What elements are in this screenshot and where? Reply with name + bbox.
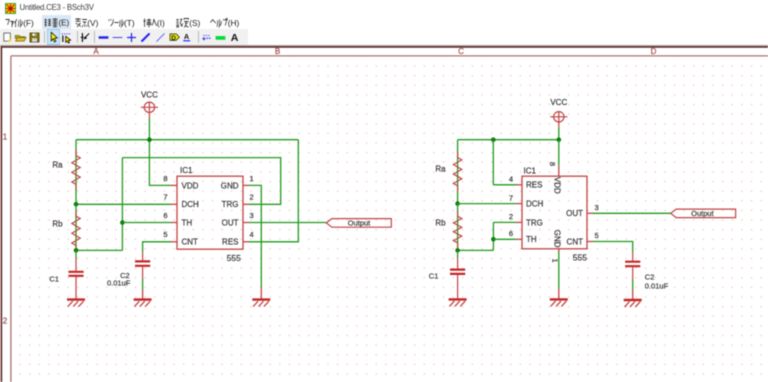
svg-text:7: 7: [509, 193, 513, 202]
svg-text:3: 3: [250, 211, 254, 220]
svg-text:555: 555: [227, 253, 241, 263]
svg-text:(E): (E): [58, 18, 69, 27]
svg-text:TRG: TRG: [526, 218, 543, 227]
svg-text:VDD: VDD: [553, 177, 562, 194]
svg-text:1: 1: [551, 259, 560, 263]
svg-text:(T): (T): [124, 17, 135, 27]
svg-text:(I): (I): [157, 17, 165, 27]
svg-text:Output: Output: [691, 209, 714, 218]
svg-text:DCH: DCH: [182, 200, 200, 209]
svg-text:8: 8: [548, 162, 557, 166]
svg-text:C1: C1: [49, 274, 59, 283]
svg-text:RES: RES: [526, 181, 542, 190]
svg-text:7: 7: [163, 193, 167, 202]
svg-text:555: 555: [573, 253, 587, 263]
svg-text:Ra: Ra: [435, 164, 446, 173]
svg-text:2: 2: [509, 212, 513, 221]
svg-text:5: 5: [595, 231, 599, 240]
svg-text:RES: RES: [222, 238, 238, 247]
svg-text:2: 2: [3, 317, 8, 326]
svg-text:(S): (S): [189, 17, 200, 27]
svg-text:2: 2: [250, 193, 254, 202]
svg-text:VCC: VCC: [550, 98, 567, 107]
svg-text:0.01uF: 0.01uF: [645, 281, 669, 290]
svg-text:DCH: DCH: [526, 200, 544, 209]
svg-text:6: 6: [509, 229, 513, 238]
svg-text:OUT: OUT: [566, 209, 583, 218]
svg-text:3: 3: [595, 203, 599, 212]
svg-text:8: 8: [163, 174, 167, 183]
svg-text:1: 1: [3, 132, 8, 141]
svg-text:D: D: [651, 47, 657, 56]
svg-text:IC1: IC1: [180, 166, 193, 175]
svg-text:4: 4: [250, 230, 254, 239]
svg-text:(H): (H): [227, 17, 239, 27]
svg-text:1: 1: [250, 174, 254, 183]
svg-text:CNT: CNT: [182, 238, 199, 247]
svg-text:TH: TH: [526, 235, 537, 244]
svg-text:C1: C1: [429, 271, 439, 280]
svg-text:GND: GND: [221, 181, 239, 190]
svg-text:OUT: OUT: [222, 218, 239, 227]
svg-text:B: B: [275, 47, 280, 56]
svg-text:VDD: VDD: [182, 181, 199, 190]
svg-text:A: A: [93, 47, 99, 56]
svg-text:C2: C2: [645, 272, 655, 281]
svg-text:D: D: [171, 34, 176, 41]
svg-text:A: A: [231, 32, 239, 44]
svg-text:A: A: [184, 32, 190, 41]
svg-text:0.01uF: 0.01uF: [107, 278, 131, 287]
svg-text:Rb: Rb: [435, 219, 446, 228]
svg-text:6: 6: [163, 211, 167, 220]
svg-text:VCC: VCC: [141, 91, 158, 100]
svg-text:(V): (V): [87, 17, 98, 27]
svg-text:TH: TH: [182, 218, 193, 227]
svg-text:IC1: IC1: [524, 167, 537, 176]
svg-text:TRG: TRG: [222, 200, 239, 209]
svg-text:(F): (F): [23, 17, 34, 27]
svg-text:GND: GND: [553, 230, 562, 248]
svg-text:Output: Output: [348, 219, 371, 228]
svg-text:CNT: CNT: [567, 237, 584, 246]
svg-text:C: C: [458, 47, 464, 56]
svg-text:4: 4: [509, 175, 513, 184]
svg-text:Ra: Ra: [52, 160, 63, 169]
svg-text:5: 5: [163, 230, 167, 239]
svg-text:Rb: Rb: [52, 219, 63, 228]
